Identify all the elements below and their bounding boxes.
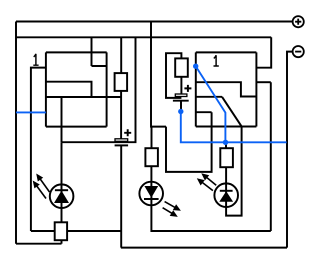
wire pin1 of U1 <box>31 68 46 231</box>
U1 inner step <box>46 82 92 97</box>
wire R3 top lead <box>151 127 153 149</box>
U2 inner z-step <box>196 82 257 96</box>
blue wire diagonal from U2 <box>196 66 226 142</box>
wire R1 bottom to C2 top <box>120 91 122 140</box>
wire R4 bottom lead <box>61 240 63 244</box>
wire rail2 down to LED1 top <box>62 37 136 222</box>
wire R2 bottom to C1 top <box>180 77 182 95</box>
wire rail2 to U1 top <box>91 37 93 52</box>
U2 top edge <box>196 51 257 53</box>
wire rail2 corner to U2 notch <box>256 37 271 67</box>
op-amp U3 box outline (middle) <box>166 112 212 172</box>
wire U1 pin column to LED1 <box>61 97 63 142</box>
op-amp U2 box outline <box>196 52 257 126</box>
C1 top plate <box>175 94 187 97</box>
wire node A horizontal behind R4 <box>31 230 121 232</box>
wire left frame <box>15 22 17 244</box>
wire rail1 down to middle box <box>151 22 166 127</box>
resistor R4 <box>55 222 67 240</box>
blue wire C1 bottom to right rail <box>181 112 287 143</box>
U2 left edge <box>195 52 197 126</box>
C2 top plate <box>115 139 128 142</box>
LED D1 <box>33 174 74 209</box>
wire R5 top lead <box>225 142 227 148</box>
C1 bottom plate <box>173 100 189 102</box>
wire LED3 bottom to U2 corner riser <box>226 127 242 216</box>
op-amp U1 box outline <box>46 52 121 142</box>
resistor R2 <box>175 58 188 76</box>
wire right side riser x271 <box>270 82 272 231</box>
wire positive rail <box>16 21 293 23</box>
U1 lower shelf to R1 lead <box>46 96 121 98</box>
capacitor C2 <box>115 129 132 145</box>
wire C1 bottom lead <box>180 100 182 111</box>
LED D2 <box>139 182 181 217</box>
U1 notch rectangle <box>92 52 107 66</box>
LED D3 <box>197 173 238 207</box>
blue node dot 3 <box>223 140 228 145</box>
blue node dot 1 <box>193 63 198 68</box>
wire minus terminal hook <box>287 52 293 248</box>
blue node dot 2 <box>178 109 183 114</box>
blue wire left <box>16 111 46 113</box>
resistor R5 <box>220 148 233 167</box>
U1 right edge <box>106 52 108 126</box>
wire R3 to LED2 to bottom <box>151 166 270 231</box>
wire bottom left <box>16 243 62 245</box>
wire C2 bottom lead down <box>120 145 122 248</box>
U1 left edge <box>45 52 47 126</box>
U2 diagonal edge <box>222 97 242 127</box>
U2 right edge <box>255 52 257 126</box>
U2 inner shelf <box>196 96 222 98</box>
label 1 of U1 <box>33 54 38 65</box>
label 1 of U2 <box>214 55 219 66</box>
capacitor C1 <box>173 85 192 101</box>
U2 bottom edge <box>196 126 257 128</box>
U1 bottom edge <box>46 126 107 128</box>
resistor R1 <box>115 73 128 91</box>
C1 polarity plus <box>184 85 191 92</box>
C2 bottom plate <box>115 144 129 146</box>
U2 pin square top <box>196 111 212 113</box>
terminal negative <box>293 46 304 57</box>
C2 polarity plus <box>124 129 131 136</box>
wire bottom right <box>121 247 287 249</box>
wire R1 top lead <box>120 37 122 73</box>
wire second rail <box>16 36 271 38</box>
resistor R3 <box>145 148 158 166</box>
terminal positive <box>293 16 304 27</box>
wire C-shape R2 to C1 <box>166 53 181 98</box>
U1 top edge <box>46 51 107 53</box>
wire U2 right edge stub <box>256 81 270 83</box>
